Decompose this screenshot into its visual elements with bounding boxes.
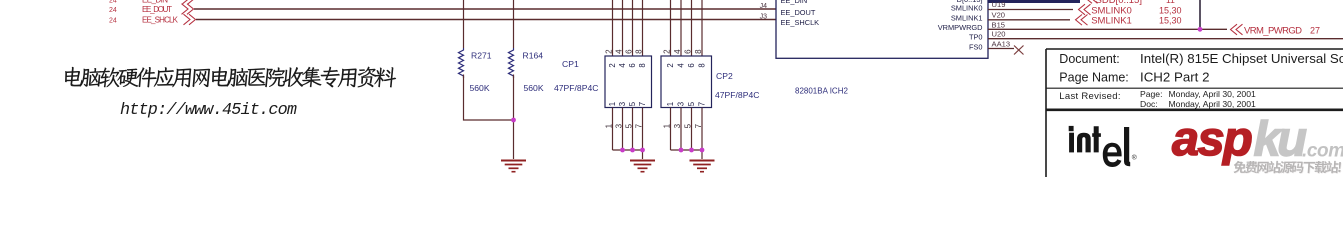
svg-text:Monday, April 30, 2001: Monday, April 30, 2001 (1169, 89, 1256, 99)
junction resistor gnd node (511, 118, 516, 123)
svg-text:1: 1 (666, 102, 675, 106)
svg-text:5: 5 (628, 101, 637, 106)
CP1 top pin numbers (rotated) (604, 49, 643, 54)
wire CP2 pin6 up (691, 0, 693, 56)
svg-text:Monday, April 30, 2001: Monday, April 30, 2001 (1169, 99, 1256, 109)
svg-text:6: 6 (683, 49, 692, 54)
title block border (1046, 49, 1343, 177)
svg-text:82801BA ICH2: 82801BA ICH2 (795, 87, 848, 96)
svg-text:2: 2 (662, 49, 671, 54)
svg-text:J3: J3 (760, 14, 768, 21)
wire CP2 pin4 up (680, 0, 682, 56)
bus wire (navy, clipped) (988, 0, 1080, 3)
svg-text:Page Name:: Page Name: (1059, 71, 1128, 85)
svg-text:VRM_PWRGD: VRM_PWRGD (1244, 25, 1302, 36)
svg-text:AA13: AA13 (992, 40, 1011, 49)
wire R164 bottom (513, 75, 515, 160)
svg-text:SMLINK1: SMLINK1 (951, 14, 983, 23)
svg-text:FS0: FS0 (969, 42, 983, 51)
svg-text:4: 4 (614, 49, 623, 54)
wire EE_SHCLK (196, 19, 776, 21)
ground (CP2) (690, 161, 715, 172)
wire vertical to R164 (513, 0, 515, 48)
svg-text:asp: asp (1172, 112, 1252, 166)
svg-text:VRMPWRGD: VRMPWRGD (938, 23, 983, 32)
svg-text:15,30: 15,30 (1159, 16, 1182, 26)
capacitor pack CP1 (605, 56, 652, 108)
wire CP2 pin8 up (701, 0, 703, 56)
junction VRMPWRGD (1198, 27, 1203, 32)
wire CP1 pin2 up (612, 0, 614, 56)
svg-text:EE_SHCLK: EE_SHCLK (142, 16, 179, 25)
wire SMLINK1 (988, 19, 1070, 21)
svg-text:J4: J4 (760, 3, 768, 10)
wire CP1 pin8 up (642, 0, 644, 56)
wire CP1 pin6 up (632, 0, 634, 56)
svg-text:http://www.45it.com: http://www.45it.com (120, 101, 297, 120)
svg-text:24: 24 (109, 0, 117, 5)
svg-text:8: 8 (634, 49, 643, 54)
svg-text:SMLINK0: SMLINK0 (951, 3, 983, 12)
CP1 inside pin numbers (608, 63, 647, 107)
svg-text:R271: R271 (471, 51, 492, 61)
wire vertical to R271 (463, 0, 465, 48)
resistor R164 (509, 48, 514, 78)
svg-text:2: 2 (604, 49, 613, 54)
wire vertical from top to VRMPWRGD junction (1199, 0, 1201, 29)
no-connect X on FS0 (1014, 46, 1024, 55)
node EE_DOUT left off-page connector (109, 4, 194, 15)
svg-text:U19: U19 (992, 0, 1006, 9)
junction CP1 pin5 (630, 148, 635, 153)
svg-text:V20: V20 (992, 10, 1006, 19)
wire CP2 pin2 up (670, 0, 672, 56)
svg-text:B15: B15 (992, 20, 1006, 29)
svg-text:24: 24 (109, 18, 117, 25)
svg-text:2: 2 (666, 63, 675, 67)
svg-text:ICH2 Part 2: ICH2 Part 2 (1140, 70, 1209, 85)
svg-text:4: 4 (618, 63, 627, 68)
svg-text:Last Revised:: Last Revised: (1059, 91, 1120, 102)
svg-text:SMLINK1: SMLINK1 (1091, 16, 1132, 27)
svg-text:11: 11 (1166, 0, 1175, 5)
svg-text:2: 2 (608, 63, 617, 67)
node SDD off-page bus connector sliver (1086, 0, 1098, 3)
svg-text:3: 3 (618, 102, 627, 106)
junction CP1 pin3 (620, 148, 625, 153)
svg-text:3: 3 (677, 102, 686, 106)
ground (CP1) (630, 161, 655, 172)
svg-text:47PF/8P4C: 47PF/8P4C (554, 83, 598, 93)
svg-text:5: 5 (687, 101, 696, 106)
svg-text:15,30: 15,30 (1159, 5, 1182, 15)
wire EE_DOUT (194, 8, 776, 10)
svg-text:EE_DOUT: EE_DOUT (781, 8, 816, 17)
node SMLINK0 off-page connector (1079, 4, 1091, 15)
wire CP1 pin4 up (622, 0, 624, 56)
svg-text:24: 24 (109, 7, 117, 14)
wire CP2 pins down (671, 108, 703, 160)
svg-text:6: 6 (628, 63, 637, 67)
svg-text:.com: .com (1302, 140, 1343, 161)
svg-text:EE_DOUT: EE_DOUT (142, 5, 172, 14)
svg-text:EE_DIN: EE_DIN (781, 0, 808, 5)
svg-text:Doc:: Doc: (1140, 99, 1158, 109)
svg-text:CP2: CP2 (716, 71, 733, 81)
wire R271 bottom (464, 75, 514, 121)
svg-text:560K: 560K (470, 83, 490, 93)
svg-text:Intel(R) 815E Chipset Universa: Intel(R) 815E Chipset Universal Socket 3… (1140, 51, 1343, 66)
wire SMLINK0 (988, 9, 1073, 11)
wire CP1 pins down (613, 108, 643, 160)
svg-text:8: 8 (698, 63, 707, 67)
title block text (1059, 51, 1343, 109)
svg-text:8: 8 (638, 63, 647, 67)
svg-text:ku: ku (1254, 112, 1308, 166)
svg-text:R164: R164 (523, 51, 544, 61)
svg-text:8: 8 (694, 49, 703, 54)
CP2 top pin numbers (rotated) (662, 49, 703, 54)
svg-text:7: 7 (698, 102, 707, 106)
CP1 bottom pin numbers (rotated) (604, 123, 643, 128)
node SMLINK1 off-page connector (1076, 14, 1088, 25)
svg-text:6: 6 (624, 49, 633, 54)
svg-text:4: 4 (673, 49, 682, 54)
node VRM_PWRGD off-page connector (1231, 24, 1243, 35)
logo intel (1069, 126, 1137, 167)
ground (resistors) (501, 161, 526, 172)
logo aspku tagline (1234, 162, 1342, 174)
junction CP1 pin7 (640, 148, 645, 153)
svg-text:Document:: Document: (1059, 52, 1119, 66)
svg-text:CP1: CP1 (562, 59, 579, 69)
svg-text:47PF/8P4C: 47PF/8P4C (715, 90, 759, 100)
svg-text:6: 6 (687, 63, 696, 67)
junction CP2 pin5 (689, 148, 694, 153)
svg-text:560K: 560K (524, 83, 544, 93)
node EE_SHCLK left off-page connector (109, 14, 196, 25)
CP2 inside pin numbers (666, 63, 707, 107)
svg-text:U20: U20 (992, 30, 1006, 39)
svg-text:EE_SHCLK: EE_SHCLK (781, 18, 820, 27)
wire TP0 (988, 38, 1343, 40)
wire VRMPWRGD (988, 28, 1227, 30)
junction CP2 pin3 (679, 148, 684, 153)
svg-text:EE_DIN: EE_DIN (142, 0, 168, 5)
svg-text:TP0: TP0 (969, 33, 983, 42)
capacitor pack CP2 (661, 56, 712, 108)
svg-text:7: 7 (638, 102, 647, 106)
op IC 82801BA ICH2 block (776, 0, 988, 58)
svg-text:1: 1 (608, 102, 617, 106)
svg-text:27: 27 (1310, 25, 1320, 35)
node EE_DIN left off-page connector (clipped) (109, 0, 195, 5)
resistor R271 (459, 48, 464, 78)
svg-text:4: 4 (677, 63, 686, 68)
svg-text:®: ® (1132, 154, 1137, 162)
watermark Chinese text (64, 67, 398, 88)
CP2 bottom pin numbers (rotated) (662, 123, 703, 128)
junction CP2 pin7 (700, 148, 705, 153)
svg-text:Page:: Page: (1140, 89, 1162, 99)
wire FS0 stub (988, 48, 1014, 50)
